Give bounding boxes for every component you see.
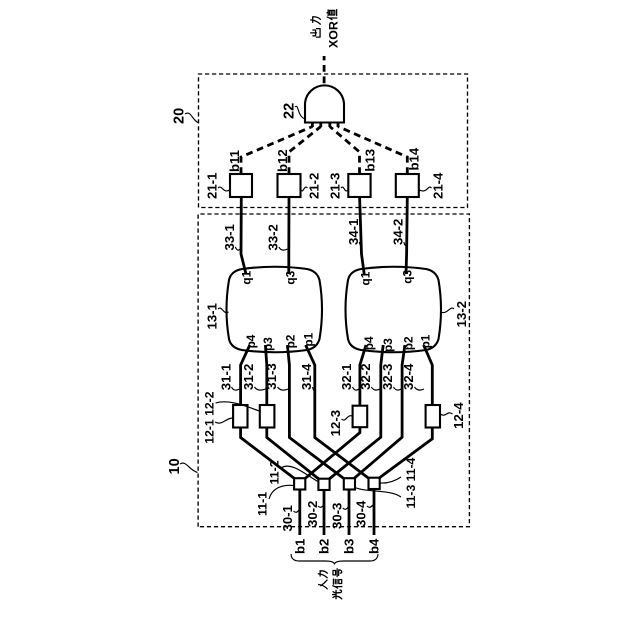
- dashed wire b11 (detector 21-1 to gate): [241, 127, 312, 175]
- svg-text:11-3 11-4: 11-3 11-4: [404, 457, 418, 508]
- svg-text:p1: p1: [302, 332, 316, 346]
- svg-text:30-2: 30-2: [305, 501, 320, 527]
- dashed wire b13 (detector 21-3 to gate): [330, 127, 360, 175]
- splitter 11-2: [318, 479, 329, 490]
- svg-text:b13: b13: [362, 149, 377, 172]
- leader 21-1: [218, 187, 230, 191]
- leader 12-3: [342, 416, 353, 420]
- wire 34-2 (detector 21-4 to q3 of 13-2): [406, 197, 407, 274]
- wire 31-1 (p4 of 13-1 to coupler 12-1): [241, 345, 250, 405]
- coupler 12-1: [233, 405, 247, 428]
- leader for label 10: [180, 463, 198, 472]
- leader for 11-1: [269, 485, 294, 499]
- svg-text:22: 22: [282, 103, 298, 119]
- svg-text:21-1: 21-1: [205, 173, 220, 199]
- svg-text:11-1: 11-1: [256, 492, 270, 516]
- svg-text:b11: b11: [227, 150, 242, 172]
- gate input stub 3: [328, 122, 331, 127]
- wire 31-3 (p2 of 13-1 to splitter 11-3): [287, 345, 343, 478]
- wire coupler 12-1 to splitter 11-1: [241, 428, 295, 479]
- label 入力 (input) kanji 力: [318, 571, 327, 578]
- svg-text:21-2: 21-2: [307, 173, 322, 199]
- svg-text:34-2: 34-2: [390, 219, 405, 245]
- leader 22: [295, 106, 306, 119]
- svg-text:13-2: 13-2: [454, 301, 469, 327]
- coupler 12-3: [353, 406, 368, 428]
- leader 12-1: [215, 418, 233, 423]
- svg-text:32-4: 32-4: [401, 363, 416, 390]
- svg-text:30-4: 30-4: [354, 500, 369, 527]
- leader 30-3: [343, 507, 349, 509]
- input line b2 (net 30-2): [323, 489, 326, 535]
- svg-text:31-3: 31-3: [264, 363, 279, 389]
- leader 21-2: [301, 187, 308, 191]
- splitter 11-3: [344, 478, 355, 489]
- wire 34-1 (detector 21-3 to q1 of 13-2): [360, 197, 365, 274]
- dashed wire b12 (detector 21-2 to gate): [289, 127, 321, 175]
- gate input stub 1: [311, 122, 314, 127]
- interferometer 13-1 (barrel shape): [227, 267, 323, 353]
- svg-text:12-1 12-2: 12-1 12-2: [203, 391, 217, 443]
- leader 13-1: [218, 308, 229, 313]
- leader 12-2: [216, 402, 260, 411]
- svg-text:b1: b1: [293, 539, 308, 554]
- svg-text:21-4: 21-4: [431, 172, 446, 199]
- leader 31-1: [232, 387, 240, 390]
- wire 31-2 (p3 of 13-1 to coupler 12-2): [265, 345, 266, 405]
- wire 32-4 (p1 of 13-2 to coupler 12-4): [424, 345, 433, 405]
- leader for 11-3: [355, 488, 401, 498]
- detector 21-3: [348, 174, 370, 197]
- svg-text:32-2: 32-2: [358, 363, 373, 389]
- wire 32-2 (p3 of 13-2 to splitter 11-2): [329, 345, 383, 479]
- svg-text:31-1: 31-1: [218, 364, 233, 390]
- detector 21-2: [278, 174, 301, 197]
- gate input stub 2: [319, 122, 322, 127]
- AND gate 22: [305, 85, 344, 122]
- leader 21-3: [341, 187, 348, 191]
- leader for label 20: [185, 113, 198, 122]
- svg-text:33-2: 33-2: [265, 224, 280, 250]
- detector 21-1: [230, 174, 252, 197]
- input line b4 (net 30-4): [373, 489, 376, 535]
- leader 30-2: [318, 505, 324, 507]
- leader for 11-4: [380, 477, 401, 483]
- leader 33-2: [279, 247, 288, 250]
- leader 33-1: [235, 247, 240, 250]
- dashed box 20 (detection unit): [199, 74, 468, 208]
- brace for input group: [291, 554, 378, 565]
- detector 21-4: [396, 174, 419, 197]
- splitter 11-4: [369, 478, 380, 489]
- label 入力 (input) kanji 入: [319, 580, 328, 589]
- svg-text:b4: b4: [367, 538, 382, 554]
- svg-text:31-2: 31-2: [241, 364, 256, 390]
- svg-text:b14: b14: [407, 147, 422, 170]
- wire 32-3 (p2 of 13-2 to splitter 11-3): [354, 345, 405, 478]
- svg-text:31-4: 31-4: [299, 363, 314, 390]
- leader 13-2: [441, 308, 455, 313]
- dashed output wire: [323, 56, 326, 83]
- label 光信号 (optical signal) kanji 光: [333, 590, 342, 599]
- wire 33-2 (detector 21-2 to q3 of 13-1): [287, 197, 290, 274]
- label 光信号 kanji 号: [333, 569, 342, 577]
- svg-text:b3: b3: [342, 539, 357, 554]
- wire 32-1 (p4 of 13-2 to coupler 12-3): [360, 345, 366, 406]
- svg-text:12-4: 12-4: [451, 402, 466, 429]
- leader 31-3: [278, 387, 289, 390]
- wire coupler 12-4 to splitter 11-4: [379, 428, 432, 479]
- svg-text:21-3: 21-3: [328, 173, 343, 199]
- leader 32-2: [371, 387, 380, 390]
- output label 出力 kanji 力: [311, 17, 321, 24]
- svg-text:q3: q3: [401, 269, 415, 283]
- svg-text:p4: p4: [244, 334, 258, 348]
- output label kanji 値: [327, 10, 337, 20]
- interferometer 13-2 (barrel shape): [346, 267, 442, 353]
- svg-text:33-1: 33-1: [222, 224, 237, 250]
- svg-text:XOR: XOR: [326, 21, 340, 48]
- splitter 11-1: [294, 478, 305, 489]
- coupler 12-2: [260, 405, 275, 428]
- input line b1 (net 30-1): [298, 489, 301, 535]
- leader 30-1: [294, 510, 300, 512]
- svg-text:p3: p3: [261, 337, 275, 351]
- wire 31-4 (p1 of 13-1 to splitter 11-4): [306, 345, 369, 478]
- dashed box 10 (optical circuit unit): [198, 214, 469, 527]
- svg-text:10: 10: [167, 458, 183, 474]
- svg-text:p2: p2: [284, 334, 298, 348]
- svg-text:34-1: 34-1: [346, 219, 361, 245]
- svg-text:b12: b12: [275, 149, 290, 172]
- wire coupler 12-2 to splitter 11-2: [267, 428, 319, 479]
- leader 12-4: [440, 413, 452, 415]
- leader 31-4: [313, 387, 314, 390]
- dashed wire b14 (detector 21-4 to gate): [338, 127, 407, 175]
- svg-text:20: 20: [172, 108, 188, 124]
- svg-text:32-1: 32-1: [339, 364, 354, 390]
- svg-text:13-1: 13-1: [205, 303, 220, 329]
- leader 34-2: [404, 242, 406, 245]
- svg-text:q3: q3: [283, 270, 297, 284]
- leader 32-1: [353, 387, 359, 390]
- leader 21-4: [419, 187, 431, 191]
- leader 31-2: [255, 387, 266, 390]
- svg-text:30-1: 30-1: [280, 505, 295, 531]
- coupler 12-4: [426, 405, 440, 428]
- leader for 11-2: [281, 466, 318, 481]
- leader 32-3: [394, 387, 402, 390]
- leader 30-4: [367, 505, 373, 507]
- gate input stub 4: [337, 122, 340, 127]
- wire 33-1 (detector 21-1 to q1 of 13-1): [241, 197, 246, 274]
- svg-text:b2: b2: [317, 539, 332, 554]
- leader 34-1: [359, 242, 361, 245]
- svg-text:32-3: 32-3: [380, 364, 395, 390]
- label 光信号 kanji 信: [333, 579, 342, 588]
- input line b3 (net 30-3): [348, 489, 351, 535]
- output label 出力 kanji 出: [311, 29, 320, 38]
- svg-text:12-3: 12-3: [328, 410, 343, 436]
- wire coupler 12-3 to splitter 11-1: [305, 427, 360, 478]
- leader 32-4: [415, 387, 425, 390]
- svg-text:30-3: 30-3: [329, 503, 344, 529]
